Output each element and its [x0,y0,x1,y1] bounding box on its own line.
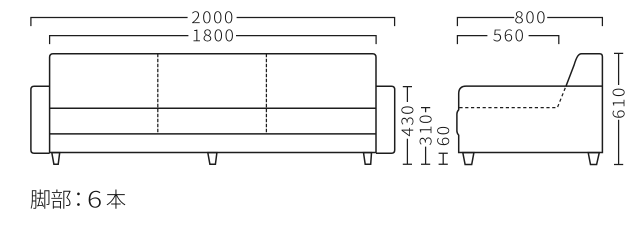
dimension 2000 line [31,18,395,27]
sofa side: hidden seat line dashed [459,86,566,107]
sofa front: left leg [52,153,60,165]
dimension 800 text [515,11,544,23]
sofa front: right armrest [376,86,395,153]
dimension 800 line [457,18,602,27]
dimension 610 text [613,89,625,118]
dimension 560 line [457,36,558,45]
sofa side: front leg [463,153,474,165]
dimension 560 text [493,29,523,41]
sofa side: rear leg [588,153,599,165]
sofa front: left armrest [31,86,50,153]
dimension 430 text [401,106,413,136]
sofa front: middle leg [208,153,217,165]
dimension 2000 text [192,11,232,23]
dimension 310 [421,108,430,165]
sofa front: cushion divider dashed right [265,54,267,134]
sofa side: armrest top line [566,85,603,87]
dimension 310 text [420,116,432,146]
sofa front: body outline [50,54,376,153]
sofa front: seat line [50,107,376,109]
dimension 60 text [437,127,449,145]
sofa front: cushion divider dashed left [157,54,159,134]
sofa front: rail line [50,133,376,135]
dimension 610 [614,53,623,164]
dimension 1800 line [50,36,377,45]
sofa front: right leg [364,153,372,165]
dimension 1800 text [193,29,232,41]
dimension 430 [403,87,412,165]
caption 脚部：6本 [31,189,126,208]
sofa side: outline [457,54,603,153]
dimension 60 [439,153,448,164]
